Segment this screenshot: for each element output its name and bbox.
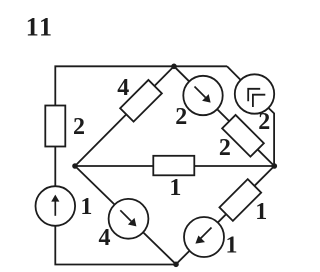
current source 1 (bottom, arrow down-left) bbox=[184, 217, 238, 259]
step/pulse source 2 (top right) bbox=[235, 74, 274, 135]
resistor 1 (middle horizontal) bbox=[153, 156, 194, 201]
svg-text:2: 2 bbox=[258, 109, 270, 135]
wire: diagonal left node to top node bbox=[75, 66, 174, 166]
svg-text:1: 1 bbox=[80, 194, 92, 220]
svg-text:4: 4 bbox=[99, 225, 111, 251]
resistor 4 (diagonal between left node and top node) bbox=[117, 75, 162, 122]
svg-text:1: 1 bbox=[169, 175, 181, 201]
current source 1 (left branch, arrow up) bbox=[36, 186, 93, 226]
svg-text:1: 1 bbox=[255, 199, 267, 225]
wire: pulse source to right vertical down to right node bbox=[268, 108, 274, 166]
resistor 1 (diagonal between bottom current source and right node) bbox=[219, 179, 267, 225]
node: bottom junction bbox=[173, 262, 179, 268]
wire: diagonal left node to bottom node bbox=[75, 166, 176, 264]
svg-text:11: 11 bbox=[26, 12, 54, 41]
node: top junction bbox=[171, 64, 177, 70]
resistor 2 (diagonal between top current source and right node) bbox=[219, 115, 264, 161]
svg-text:2: 2 bbox=[73, 114, 85, 140]
svg-text:4: 4 bbox=[117, 75, 129, 101]
wire: diagonal top node to right node bbox=[174, 66, 274, 166]
wire: middle horizontal from left node to right node bbox=[75, 165, 274, 167]
svg-text:2: 2 bbox=[175, 104, 187, 130]
current source 2 (top diagonal, arrow down-right) bbox=[175, 76, 222, 130]
node: right junction bbox=[272, 163, 278, 169]
svg-text:1: 1 bbox=[226, 233, 238, 259]
wire: top-left corner, left vertical top + top horizontal through top node bbox=[55, 66, 227, 105]
wire: diagonal bottom node to right node bbox=[176, 166, 274, 264]
resistor 2 (left vertical branch) bbox=[45, 106, 85, 147]
svg-text:2: 2 bbox=[219, 135, 231, 161]
node: left junction bbox=[72, 163, 78, 169]
current source 4 (lower-left diagonal, arrow down-right) bbox=[99, 199, 149, 251]
wire: slant from top wire into pulse source bbox=[227, 66, 241, 80]
wire: left branch lower vertical + bottom horizontal to bottom node bbox=[55, 147, 176, 265]
